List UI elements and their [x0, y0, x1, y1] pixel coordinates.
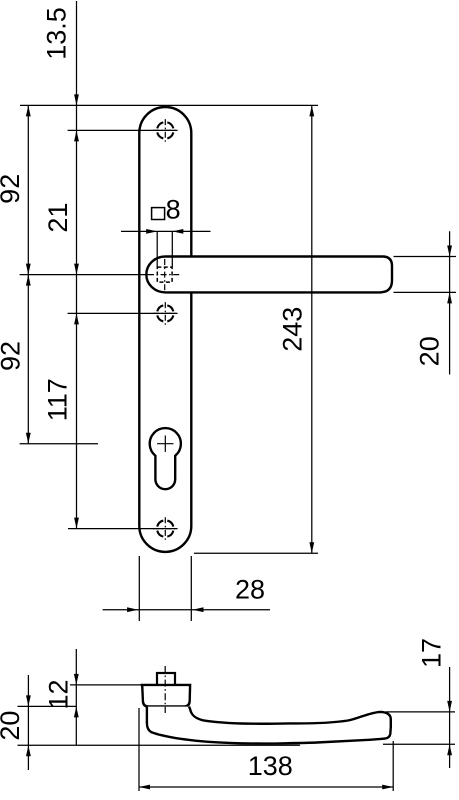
extension line lever bottom [394, 291, 457, 293]
arrow 92b bottom [26, 433, 31, 444]
svg-text:13.5: 13.5 [42, 7, 72, 60]
dimension line 12 [75, 649, 77, 745]
dimension line 243 [311, 105, 313, 553]
svg-text:20: 20 [415, 336, 445, 366]
dimension line 13.5/21/117 [76, 1, 78, 529]
extension line spindle left [156, 231, 158, 267]
arrow 20s top [26, 695, 31, 706]
extension line top hole [68, 129, 178, 131]
dimension line 20 lever [449, 231, 451, 374]
extension line plate right edge [190, 556, 192, 621]
dimension line 20 side [27, 675, 29, 770]
arrow 92a top [26, 105, 31, 116]
extension line tip top [386, 711, 455, 713]
dimension line 28 [103, 609, 270, 611]
arrow 13.5 top [74, 94, 79, 105]
svg-text:92: 92 [0, 174, 25, 204]
extension line lever tip right [392, 741, 394, 791]
lever handle (front view) [146, 257, 392, 293]
extension line block left edge [138, 708, 140, 791]
extension line plate top [20, 104, 318, 106]
extension line spindle right [171, 231, 173, 267]
arrow 20 lever bottom [447, 292, 452, 303]
arrow 12 top [74, 674, 79, 685]
centre line spindle (side view) [164, 666, 166, 713]
extension line cylinder centre [20, 443, 98, 445]
extension line plate left edge [138, 556, 140, 621]
dimension line 17 [449, 667, 451, 768]
extension line block bottom [18, 705, 77, 707]
svg-text:12: 12 [44, 679, 74, 709]
extension line plate bottom [194, 552, 318, 554]
arrow 92b top [26, 275, 31, 286]
arrow 17 top [447, 701, 452, 712]
arrow 243 top [309, 105, 314, 116]
arrow 117 bottom [74, 518, 79, 529]
arrow sq8 left [146, 229, 157, 234]
screw hole middle [157, 305, 173, 321]
arrow 17 bottom [447, 744, 452, 755]
svg-text:92: 92 [0, 341, 26, 371]
lever arm (side view) [147, 707, 391, 744]
arrow 20 lever top [447, 246, 452, 257]
dimension line 92/92 [27, 105, 29, 443]
svg-text:17: 17 [417, 638, 447, 668]
extension line middle hole [68, 312, 178, 314]
spindle nub (side view) [157, 673, 175, 685]
arrow 21/117 middle [74, 313, 79, 324]
arrow 20s bottom [26, 745, 31, 756]
arrow 138 left [139, 785, 150, 790]
screw hole bottom [157, 521, 173, 537]
arrow 243 bottom [309, 542, 314, 553]
extension line lever top [394, 256, 457, 258]
dimension line 138 [139, 786, 393, 788]
svg-text:117: 117 [43, 378, 73, 421]
extension line tip bottom [383, 743, 455, 745]
label square-8 [152, 208, 165, 220]
screw hole top [157, 122, 173, 138]
svg-text:8: 8 [166, 195, 181, 225]
arrow 13.5 bottom [74, 130, 79, 141]
euro-profile cylinder hole [150, 428, 181, 489]
arrow 28 right [193, 607, 204, 612]
svg-text:243: 243 [278, 307, 308, 352]
arrow sq8 right [172, 229, 183, 234]
extension line handle centre [20, 274, 148, 276]
arrow 21 top [74, 264, 79, 275]
svg-text:21: 21 [43, 203, 73, 233]
svg-text:138: 138 [248, 751, 293, 781]
svg-text:28: 28 [235, 575, 265, 605]
arrow 92a bottom [26, 264, 31, 275]
arrow 28 left [127, 607, 138, 612]
dimension line square 8 [121, 230, 211, 232]
square spindle 8mm (dashed) [157, 267, 172, 282]
extension line handle underside [18, 744, 301, 746]
extension line block top [70, 684, 144, 686]
backplate outline (front view) [139, 107, 191, 552]
arrow 138 right [382, 785, 393, 790]
svg-text:20: 20 [0, 711, 25, 741]
extension line bottom hole [68, 528, 178, 530]
handle neck block (side view) [141, 685, 190, 707]
arrow 12 bottom [74, 706, 79, 717]
